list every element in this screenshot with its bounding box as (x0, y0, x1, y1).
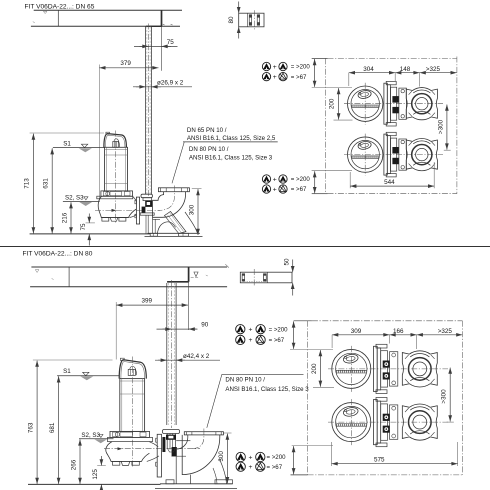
svg-text:+: + (249, 464, 253, 471)
svg-text:309: 309 (351, 328, 362, 335)
floor line DN80 (28, 483, 161, 485)
label DN 65 flange (183, 141, 278, 143)
discharge flange plate DN65 (136, 197, 139, 224)
svg-text:>300: >300 (441, 389, 448, 404)
dimension 80 bracket (238, 2, 240, 14)
warning icons bottom DN80 (236, 452, 245, 461)
svg-text:FIT V06DA-22...: DN 65: FIT V06DA-22...: DN 65 (25, 4, 95, 11)
svg-text:80: 80 (228, 16, 235, 24)
adapter plate plan DN65 A (399, 88, 407, 119)
dimension 75 vertical (86, 222, 95, 224)
svg-text:+: + (248, 327, 252, 334)
dimension 90 (157, 328, 197, 330)
guide pipe DN65 (145, 26, 147, 194)
dimension 379 (99, 67, 158, 69)
elbow centerline DN65 (158, 186, 175, 211)
cable gland DN80 (128, 369, 135, 375)
svg-text:DN 80 PN 10 /: DN 80 PN 10 / (225, 376, 265, 383)
guide pipe DN80 (166, 283, 168, 425)
svg-text:544: 544 (384, 179, 395, 186)
motor body DN65 (105, 147, 128, 191)
svg-text:DN 80 PN 10 /: DN 80 PN 10 / (189, 146, 229, 153)
svg-text:= >67: = >67 (269, 337, 285, 344)
pump feet DN80 (113, 461, 120, 465)
plan centerlines DN65 A (344, 103, 443, 105)
pump plan handle DN65 A (357, 90, 371, 100)
ceiling DN80 (31, 266, 227, 268)
svg-text:ø42,4 x 2: ø42,4 x 2 (183, 353, 210, 360)
dimension >300 DN65 plan (444, 149, 451, 151)
clearance >200 top DN65 plan (312, 87, 352, 89)
guide claw DN65 (141, 194, 152, 198)
clearance >200 bottom DN65 plan (312, 170, 352, 172)
svg-text:>325: >325 (426, 66, 441, 73)
clamp ring DN80 (110, 431, 150, 437)
elbow base DN65 (148, 232, 200, 234)
pump plan body DN65 A (348, 86, 383, 121)
dimension 399 (116, 304, 188, 306)
clearance >200 top DN80 plan (290, 349, 333, 351)
svg-text:>300: >300 (437, 119, 444, 134)
cable gland DN65 (113, 142, 119, 148)
pump plan chord band DN65 A (352, 104, 379, 106)
svg-text:= >67: = >67 (291, 74, 307, 81)
adapter plate plan DN80 A (390, 352, 398, 386)
plan centerlines DN80 A (328, 368, 448, 370)
elbow flange plan DN65 A (406, 88, 437, 120)
svg-text:DN 65 PN 10 /: DN 65 PN 10 / (187, 127, 227, 134)
discharge elbow DN65 (158, 188, 189, 192)
pump plan body DN65 B (348, 137, 383, 172)
svg-text:+: + (273, 176, 277, 183)
dimension 575 (331, 442, 333, 466)
svg-text:304: 304 (363, 66, 374, 73)
svg-text:>325: >325 (438, 328, 453, 335)
pit outline DN80 plan (294, 320, 312, 322)
clamp ring DN65 (101, 191, 133, 196)
svg-text:= >200: = >200 (291, 176, 311, 183)
svg-text:148: 148 (400, 66, 411, 73)
warning icons bottom DN65 (262, 175, 270, 183)
elbow flange plan DN80 B (402, 404, 437, 440)
dimension 50 bracket (292, 260, 294, 273)
warning icons top DN65 (262, 62, 270, 70)
coupling plan DN80 A (374, 346, 378, 391)
dimension 216 (70, 202, 72, 233)
discharge elbow DN80 (184, 432, 223, 435)
dimension 681 (58, 376, 60, 484)
svg-text:300: 300 (218, 451, 225, 462)
svg-text:575: 575 (374, 456, 385, 463)
motor body DN80 (120, 379, 145, 432)
volute DN80 (106, 442, 150, 462)
svg-text:S2, S3: S2, S3 (81, 432, 100, 439)
svg-text:379: 379 (120, 60, 131, 67)
svg-text:+: + (273, 74, 277, 81)
svg-text:= >200: = >200 (269, 326, 289, 333)
svg-text:631: 631 (42, 178, 49, 189)
dimension 125 vertical (97, 465, 106, 467)
svg-text:= >200: = >200 (267, 454, 287, 461)
svg-text:50: 50 (284, 258, 291, 266)
svg-text:= >67: = >67 (267, 464, 283, 471)
elbow flange plan DN80 A (402, 351, 437, 387)
svg-text:S1: S1 (63, 368, 71, 375)
dimension 200 DN80 plan (313, 386, 334, 388)
pump plan body DN80 A (332, 349, 371, 388)
ceiling DN65 (34, 9, 182, 11)
dimension 631 (51, 148, 53, 233)
elbow foot DN65 (165, 212, 187, 234)
coupling plan DN65 B (384, 134, 387, 175)
svg-text:= >200: = >200 (291, 64, 311, 71)
coupling plan DN80 B (374, 400, 378, 445)
svg-text:125: 125 (92, 469, 99, 480)
dimension row 309 166 >325 (331, 335, 333, 348)
plan centerlines DN65 B (344, 154, 443, 156)
svg-text:200: 200 (329, 98, 336, 109)
dimension 713 (30, 132, 104, 134)
volute centerline DN65 (95, 209, 160, 211)
dimension 266 (79, 439, 81, 484)
elbow centerline DN80 (191, 429, 204, 449)
svg-text:ANSI B16.1, Class 125, Size 3: ANSI B16.1, Class 125, Size 3 (189, 154, 273, 161)
label DN 80 flange (222, 373, 304, 375)
svg-text:300: 300 (189, 204, 196, 215)
svg-text:90: 90 (201, 322, 209, 329)
discharge flange plate DN80 (157, 434, 161, 477)
svg-text:FIT V06DA-22...: DN 80: FIT V06DA-22...: DN 80 (23, 251, 93, 258)
svg-text:399: 399 (142, 298, 153, 305)
pump plan body DN80 B (332, 403, 371, 442)
svg-text:+: + (273, 186, 277, 193)
pump plan chord band DN80 B (336, 423, 366, 425)
warning icons top DN80 (236, 325, 245, 334)
pit outline DN65 plan (312, 57, 328, 59)
svg-text:= >67: = >67 (291, 186, 307, 193)
svg-text:200: 200 (311, 363, 318, 374)
svg-text:ANSI B16.1, Class 125, Size 3: ANSI B16.1, Class 125, Size 3 (225, 386, 309, 393)
volute centerline DN80 (104, 448, 200, 450)
extension line cable (98, 65, 100, 202)
pump plan chord band DN65 B (352, 155, 379, 157)
svg-text:S2, S3: S2, S3 (65, 194, 84, 201)
svg-text:+: + (273, 64, 277, 71)
adapter plate plan DN80 B (390, 405, 398, 439)
pump plan chord band DN80 A (336, 369, 366, 371)
bracket detail DN65 (239, 13, 264, 27)
svg-text:75: 75 (80, 223, 87, 231)
plan centerlines DN80 B (328, 421, 448, 423)
dimension 300 DN80 (224, 432, 232, 434)
dimension 544 (349, 172, 351, 188)
svg-text:216: 216 (61, 212, 68, 223)
svg-text:166: 166 (393, 328, 404, 335)
dimension 300 DN65 (192, 188, 202, 190)
leader line flange label (172, 142, 184, 183)
svg-text:+: + (249, 454, 253, 461)
coupling plan DN65 A (384, 83, 387, 124)
svg-text:S1: S1 (63, 140, 71, 147)
pump plan handle DN65 B (357, 141, 371, 151)
bracket detail DN80 (240, 272, 292, 283)
dimension 763 (33, 359, 113, 361)
ceiling anchor bolt DN80 (188, 267, 190, 282)
svg-text:ANSI B16.1, Class 125, Size 2,: ANSI B16.1, Class 125, Size 2,5 (187, 135, 276, 142)
pump handle DN80 (119, 360, 146, 379)
dimension 75 pipe-to-anchor (134, 45, 178, 47)
elbow base DN80 (160, 483, 233, 485)
dimension 200 DN65 plan (334, 119, 353, 121)
svg-text:763: 763 (27, 422, 34, 433)
svg-text:681: 681 (49, 422, 56, 433)
guide claw DN80 (163, 430, 180, 434)
clearance >200 bottom DN80 plan (292, 445, 333, 447)
dimension >300 DN80 plan (447, 421, 454, 423)
svg-text:266: 266 (70, 459, 77, 470)
leader line flange label DN80 (207, 374, 222, 428)
elbow flange plan DN65 B (406, 138, 437, 170)
ceiling anchor bolt DN65 (161, 10, 163, 26)
adapter plate plan DN65 B (399, 139, 407, 170)
svg-text:ø26,9 x 2: ø26,9 x 2 (157, 79, 184, 86)
svg-text:713: 713 (24, 178, 31, 189)
floor line DN65 (30, 233, 151, 235)
pump handle DN65 (104, 134, 127, 148)
svg-text:75: 75 (167, 39, 175, 46)
pump plan handle DN80 A (343, 353, 359, 364)
volute DN65 (98, 196, 136, 217)
pump feet DN65 (102, 218, 109, 222)
ceiling level mark DN80 (191, 276, 199, 278)
separator line (0, 246, 490, 248)
pump plan handle DN80 B (343, 406, 359, 417)
svg-text:+: + (248, 337, 252, 344)
extension line cable DN80 (115, 302, 117, 360)
dimension row 304 148 >325 (348, 73, 350, 86)
